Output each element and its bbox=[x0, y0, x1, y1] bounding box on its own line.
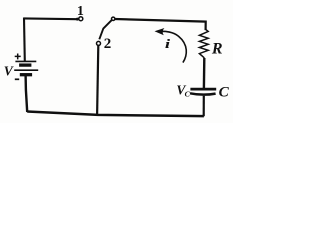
switch blade S1 bbox=[99, 20, 111, 39]
battery V plate 4 (short thick) bbox=[20, 73, 32, 76]
battery - sign bbox=[15, 78, 19, 80]
battery V plate 2 (short thick) bbox=[19, 63, 31, 66]
junction blob at contact 1 wire end bbox=[76, 18, 79, 21]
wire left vertical upper (corner to battery +) bbox=[23, 18, 26, 62]
svg-text:R: R bbox=[211, 40, 223, 57]
battery V plate 1 (long thin) bbox=[15, 60, 36, 62]
svg-text:2: 2 bbox=[104, 36, 112, 52]
wire bottom horizontal bbox=[27, 112, 204, 117]
switch contact 2 terminal bbox=[97, 41, 101, 45]
wire middle vertical (contact 2 to bottom) bbox=[97, 45, 98, 115]
switch pivot ring bbox=[112, 17, 115, 20]
svg-text:C: C bbox=[185, 90, 191, 99]
svg-text:C: C bbox=[219, 84, 230, 101]
battery V plate 3 (long thin) bbox=[14, 69, 38, 71]
wire left vertical lower (battery - to corner) bbox=[26, 75, 28, 112]
wire resistor to capacitor bbox=[203, 58, 206, 88]
battery + sign bbox=[15, 54, 21, 60]
svg-text:V: V bbox=[4, 64, 14, 79]
current arrow i (curved) bbox=[159, 31, 187, 62]
current arrowhead bbox=[155, 28, 165, 35]
capacitor C top plate bbox=[190, 88, 216, 91]
capacitor C bottom plate (curved) bbox=[190, 93, 216, 94]
wire capacitor to bottom corner bbox=[203, 96, 205, 117]
svg-text:1: 1 bbox=[77, 4, 84, 19]
switch contact 1 terminal bbox=[79, 17, 83, 21]
svg-text:i: i bbox=[165, 37, 171, 51]
wire top-right horizontal (pivot to corner) bbox=[115, 19, 206, 30]
resistor R zigzag bbox=[199, 29, 208, 58]
wire top-left horizontal (battery to contact 1) bbox=[23, 17, 77, 20]
